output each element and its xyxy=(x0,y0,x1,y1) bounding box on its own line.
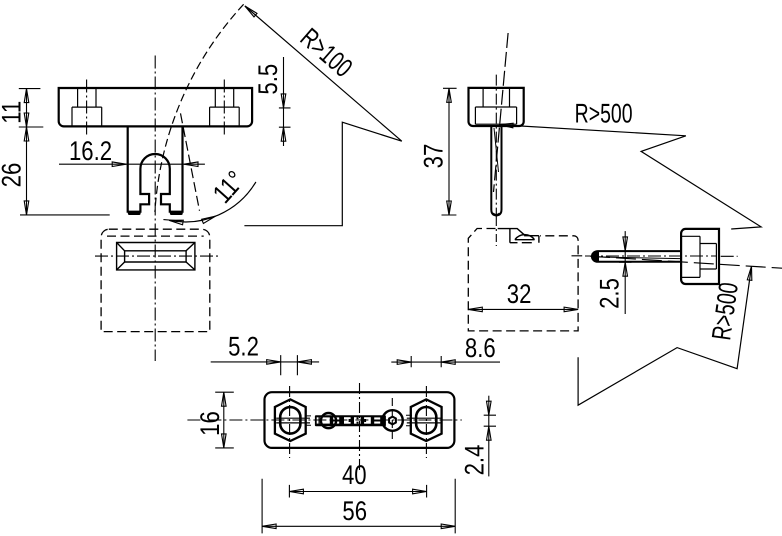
slot through lines across hexagons xyxy=(276,418,440,423)
svg-text:5.5: 5.5 xyxy=(253,64,283,95)
dim 40 ticks xyxy=(289,485,426,498)
dim 2.4 ticks xyxy=(484,415,496,426)
dim 37 line xyxy=(448,88,450,215)
R>100 leader polyline xyxy=(244,6,401,226)
svg-text:11: 11 xyxy=(0,101,27,124)
right hexagon xyxy=(411,399,442,441)
pin axis centerline xyxy=(572,255,738,257)
dim 5.2 ticks xyxy=(281,355,298,375)
dim 2.4 arrows xyxy=(487,401,492,415)
pin tip filled xyxy=(592,251,599,261)
dim 5.5 arrows xyxy=(281,94,286,108)
dim 5.5 line xyxy=(283,57,285,146)
main vertical centerline bottom view xyxy=(359,383,361,472)
dim 8.6 line xyxy=(391,361,500,363)
dim 16 arrows xyxy=(222,392,227,406)
11deg arrowhead left xyxy=(169,218,184,225)
centerline left slot xyxy=(86,80,88,138)
pin head xyxy=(681,229,719,284)
clip right circle center xyxy=(389,417,396,425)
svg-text:16: 16 xyxy=(195,411,225,436)
dim 56 extension lines xyxy=(262,479,455,534)
side view: threaded stem xyxy=(491,126,501,215)
dim 2.5 arrows xyxy=(623,237,628,251)
pin stem xyxy=(592,251,681,262)
dim 16.2 arrows xyxy=(112,162,126,167)
bottom view outline xyxy=(265,392,455,448)
R>100 arrowhead xyxy=(243,4,257,17)
side view: tilted axis dashed xyxy=(494,33,509,192)
pin inner tilted line xyxy=(599,257,680,259)
dim 56 arrows xyxy=(262,524,276,529)
R>500 top arrowhead xyxy=(499,122,513,127)
front view: left T-slot section xyxy=(72,88,102,126)
front view: right T-slot section xyxy=(210,88,240,126)
stem tip centerline into box xyxy=(495,218,497,246)
11deg arrowhead right xyxy=(202,214,217,224)
side view: stem centerline xyxy=(495,75,497,218)
svg-text:56: 56 xyxy=(342,496,367,526)
right circle vertical dash xyxy=(391,398,393,441)
left hexagon xyxy=(275,399,306,441)
clip left circle xyxy=(321,413,336,428)
rail slot 3D outline xyxy=(117,243,195,270)
dim 56 line xyxy=(262,525,455,527)
side view: stem tip dark point xyxy=(493,213,500,216)
R>500 bottom zigzag xyxy=(578,266,751,405)
dim ticks 11/26 xyxy=(19,89,110,215)
centerline right slot xyxy=(223,80,225,138)
dim 2.4 line xyxy=(488,396,490,477)
dim 40 arrows xyxy=(289,489,303,494)
svg-text:5.2: 5.2 xyxy=(228,331,259,361)
tilted 11deg dashed line xyxy=(181,113,200,210)
bar edge extension ticks xyxy=(306,415,413,426)
hexagon vertical centerlines xyxy=(289,386,291,458)
clip bar black xyxy=(315,415,386,426)
front view: stem with U-slot and prongs xyxy=(128,126,183,211)
dim 37 arrows xyxy=(447,88,452,102)
front view: T-bar head outline xyxy=(59,88,252,126)
svg-text:R>500: R>500 xyxy=(575,99,633,129)
dim 5.2 arrows xyxy=(267,360,281,365)
dim 8.6 arrows xyxy=(397,360,411,365)
11deg baseline tick xyxy=(163,220,181,221)
main vertical centerline xyxy=(154,56,156,362)
front view: left foot pad xyxy=(128,211,141,215)
phantom rail outline dashed xyxy=(101,229,210,331)
dim 5.2 line xyxy=(211,361,319,363)
svg-text:32: 32 xyxy=(507,279,532,309)
svg-text:8.6: 8.6 xyxy=(465,333,496,363)
svg-text:40: 40 xyxy=(342,460,367,490)
dim 32 line xyxy=(468,308,578,310)
side view: stem inner tilted line xyxy=(494,128,499,172)
svg-text:26: 26 xyxy=(0,163,26,188)
pin tilted swing axis xyxy=(590,256,782,268)
bottom view horizontal centerline xyxy=(187,419,461,421)
clip right circle xyxy=(382,410,403,431)
svg-text:2.4: 2.4 xyxy=(460,445,490,476)
svg-text:2.5: 2.5 xyxy=(595,278,625,309)
dim 32 arrows xyxy=(468,307,482,312)
svg-text:37: 37 xyxy=(419,144,449,169)
rail horizontal centerline xyxy=(95,255,219,257)
phantom rail inner line dashed xyxy=(107,235,204,237)
dim 5.5 ticks xyxy=(279,108,291,127)
dim 16 ticks xyxy=(215,392,234,448)
side view: head outline xyxy=(469,88,524,126)
clip bar cutouts xyxy=(317,417,381,424)
dim 2.5 ticks xyxy=(619,251,632,262)
right obround xyxy=(416,407,436,434)
dim 16 line xyxy=(223,392,225,448)
dim 16.2 line xyxy=(59,163,205,165)
dim 37 ticks xyxy=(442,88,457,215)
R>500 top leader xyxy=(499,125,761,229)
left obround xyxy=(280,407,300,434)
dim 11 arrows xyxy=(24,89,29,103)
swing trajectory dashed arc R>100 xyxy=(155,4,244,212)
svg-text:16.2: 16.2 xyxy=(69,136,112,166)
clip detail solid xyxy=(498,229,539,243)
dim 11/26 line xyxy=(26,89,28,215)
clip bar inner marks xyxy=(349,417,367,424)
side view: head inner profile xyxy=(475,88,516,124)
front view: right foot pad xyxy=(170,211,183,215)
dim 26 arrows xyxy=(24,127,29,141)
11deg arc xyxy=(169,182,256,222)
dim 8.6 ticks xyxy=(411,356,441,367)
pin head inner profile xyxy=(682,236,717,277)
R>500 bottom arrowhead xyxy=(747,266,754,281)
dim 40 line xyxy=(289,491,426,493)
dim 2.5 line xyxy=(624,231,626,314)
32 box dashed outline xyxy=(468,229,578,331)
